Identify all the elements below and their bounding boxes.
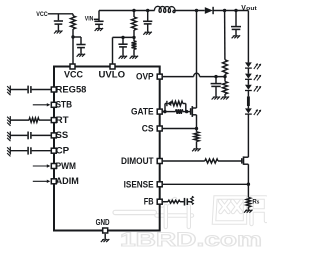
ground C5 <box>119 56 128 59</box>
svg-text:VCC: VCC <box>36 11 48 18</box>
resistor R1 <box>71 14 76 37</box>
pin label RT <box>56 115 69 125</box>
transistor Q1 <box>191 106 197 117</box>
capacitor C6 REG58 <box>10 86 50 94</box>
svg-text:REG58: REG58 <box>56 84 87 94</box>
node switch node junction <box>195 9 198 12</box>
ground C3 <box>95 28 104 31</box>
node VCC-filter junction <box>71 35 74 38</box>
node rail-OVP-divider junction <box>223 9 226 12</box>
node gate network right <box>185 110 188 113</box>
watermark character wang <box>214 198 245 223</box>
ground C2 <box>77 54 86 57</box>
capacitor C7 SS <box>10 132 50 140</box>
pin label VCC <box>64 70 83 80</box>
capacitor C1 <box>54 14 63 31</box>
svg-text:FB: FB <box>144 197 154 207</box>
LED D4 <box>245 74 261 81</box>
wire OVP pin to hop <box>163 76 194 78</box>
wire continuation to D6 <box>247 106 249 108</box>
node UVLO-C5 junction <box>121 36 124 39</box>
resistor Rs <box>246 184 250 210</box>
pin SS <box>51 133 56 138</box>
capacitor C4 on rail <box>143 11 152 32</box>
diode D1 <box>205 7 213 14</box>
capacitor C10 output <box>231 11 241 36</box>
signal arrow STB <box>33 103 51 106</box>
pin label CS <box>142 123 154 133</box>
wire VIN node to rail <box>98 11 100 22</box>
watermark character partial <box>252 198 267 225</box>
svg-text:RT: RT <box>56 115 69 125</box>
signal arrow ADIM <box>33 180 51 183</box>
ground R5 <box>221 97 230 100</box>
svg-text:UVLO: UVLO <box>99 70 126 80</box>
diode D2 gate <box>167 101 172 106</box>
wire VCC label to R1 <box>48 13 73 15</box>
pin PWM <box>51 164 56 169</box>
svg-text:ADIM: ADIM <box>56 176 79 186</box>
svg-text:DIMOUT: DIMOUT <box>121 156 154 166</box>
LED D6 <box>245 108 261 115</box>
wire to Q1 gate <box>187 111 191 113</box>
wire Q2 source down <box>247 164 249 184</box>
pin UVLO <box>110 64 115 69</box>
svg-text:GATE: GATE <box>131 107 154 117</box>
node OVP divider junction <box>223 75 226 78</box>
svg-text:1BRD.com: 1BRD.com <box>120 229 262 250</box>
wire Vout corner down to LED string <box>247 11 249 63</box>
pin CP <box>51 148 56 153</box>
watermark url 1BRD.com <box>120 229 262 251</box>
svg-text:VIN: VIN <box>85 16 94 23</box>
wire inductor to diode D1 <box>173 10 205 12</box>
net label VIN <box>85 16 94 23</box>
pin label ADIM <box>56 176 79 186</box>
capacitor C11 FB <box>180 198 191 206</box>
ground Rs <box>244 210 253 213</box>
pin VCC <box>70 64 75 69</box>
resistor R9 dim gate <box>205 159 242 163</box>
node CS junction <box>195 127 198 130</box>
wire D6 to Q2 drain <box>247 114 249 157</box>
svg-text:STB: STB <box>56 100 73 110</box>
resistor R3 RT <box>10 118 50 122</box>
ground RT resistor <box>7 116 10 126</box>
LED D5 <box>245 85 261 92</box>
net label Vout <box>241 5 257 12</box>
wire CS pin to node <box>163 128 197 130</box>
node rail-R2 junction <box>132 9 135 12</box>
pin CS <box>157 126 162 131</box>
wire ISENSE pin to node <box>163 183 248 185</box>
ground SS cap <box>7 131 10 141</box>
resistor R10 FB <box>163 200 180 203</box>
node ISENSE junction <box>247 183 250 186</box>
capacitor C2 <box>73 37 86 54</box>
ground REG58 cap <box>7 86 10 96</box>
wire junction to VCC pin <box>72 37 74 66</box>
resistor R2a <box>132 11 137 38</box>
pin label PWM <box>56 161 77 171</box>
capacitor C5 <box>118 37 127 55</box>
watermark character yi <box>113 210 157 214</box>
ground C4 <box>143 32 152 35</box>
component small zigzag FB <box>191 196 194 204</box>
node rail-C4 junction <box>146 9 149 12</box>
wire LED string continuation mark <box>247 96 250 106</box>
pin label DIMOUT <box>121 156 154 166</box>
svg-text:CP: CP <box>56 146 70 156</box>
resistor R4 OVP top <box>223 11 228 77</box>
pin ISENSE <box>157 182 162 187</box>
node gate network left <box>163 110 166 113</box>
ground CP cap <box>7 147 10 157</box>
pin label ISENSE <box>124 179 154 189</box>
pin label CP <box>56 146 70 156</box>
wire gate network right riser <box>185 104 187 112</box>
wire gate network left riser <box>165 104 167 112</box>
pin STB <box>51 102 56 107</box>
svg-text:ISENSE: ISENSE <box>124 179 154 189</box>
ground C9 <box>212 97 221 100</box>
pin label GATE <box>131 107 154 117</box>
capacitor C9 OVP <box>211 77 222 97</box>
wire DIMOUT pin to R9 <box>163 160 205 162</box>
ground C1 <box>54 31 63 34</box>
wire hop over switch node <box>194 73 200 76</box>
pin label OVP <box>136 72 154 82</box>
pin label FB <box>144 197 154 207</box>
IC U1 LED driver outline <box>54 67 160 231</box>
wire VIN label to node <box>94 18 99 20</box>
wire D5 to continuation <box>247 90 249 96</box>
pin GND <box>103 228 108 233</box>
ground R2b <box>130 56 139 59</box>
watermark character sheng <box>157 199 193 227</box>
pin label UVLO <box>99 70 126 80</box>
resistor R6 gate top <box>171 101 185 106</box>
svg-text:PWM: PWM <box>56 161 77 171</box>
label Rs <box>252 199 259 206</box>
pin RT <box>51 118 56 123</box>
pin label REG58 <box>56 84 87 94</box>
inductor L1 <box>154 6 175 12</box>
net label VCC <box>36 11 48 18</box>
resistor R7 gate bottom <box>165 109 187 114</box>
svg-text:CS: CS <box>142 123 154 133</box>
wire GATE pin to network <box>163 111 165 113</box>
wire D4 to D5 <box>247 79 249 85</box>
wire GND pin down <box>104 234 106 239</box>
svg-text:VCC: VCC <box>64 70 83 80</box>
svg-text:GND: GND <box>96 217 110 227</box>
pin label STB <box>56 100 73 110</box>
pin ADIM <box>51 179 56 184</box>
pin GATE <box>157 109 162 114</box>
ground GND <box>101 239 110 242</box>
capacitor C3 <box>94 21 103 28</box>
resistor R8 sense <box>194 129 199 149</box>
node rail-C6 junction <box>234 9 237 12</box>
wire VIN rail to inductor <box>99 10 155 12</box>
pin FB <box>157 199 162 204</box>
node UVLO divider junction <box>132 36 135 39</box>
LED D3 <box>245 62 261 69</box>
svg-text:SS: SS <box>56 130 69 140</box>
wire D3 to D4 <box>247 68 249 74</box>
wire D1 to Vout corner <box>213 10 248 12</box>
ground C10 <box>232 35 241 38</box>
node OVP cap junction <box>214 75 217 78</box>
wire switch node to Q1 drain <box>196 11 198 109</box>
svg-text:s: s <box>257 200 260 206</box>
pin label GND <box>96 217 110 227</box>
pin REG58 <box>51 87 56 92</box>
transistor Q2 <box>242 156 249 164</box>
ground R8 <box>192 148 201 151</box>
resistor R5 OVP bottom <box>223 77 228 97</box>
IC body fill <box>54 67 160 231</box>
pin DIMOUT <box>157 159 162 164</box>
resistor R2b <box>132 37 137 55</box>
wire hop to divider <box>200 76 225 78</box>
wire Q1 source to CS node <box>196 115 198 129</box>
signal arrow PWM <box>33 164 51 167</box>
capacitor C8 CP <box>10 147 50 155</box>
pin label SS <box>56 130 69 140</box>
svg-text:OVP: OVP <box>136 72 154 82</box>
wire divider to UVLO pin <box>113 37 135 66</box>
pin OVP <box>157 74 162 79</box>
